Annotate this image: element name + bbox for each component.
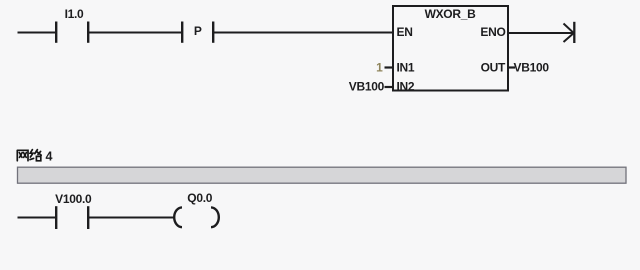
svg-text:VB100: VB100 bbox=[514, 61, 550, 75]
svg-text:1: 1 bbox=[376, 61, 383, 75]
svg-text:VB100: VB100 bbox=[349, 79, 385, 93]
svg-text:4: 4 bbox=[46, 150, 53, 164]
svg-text:ENO: ENO bbox=[480, 25, 505, 39]
svg-text:Q0.0: Q0.0 bbox=[187, 191, 212, 205]
svg-text:I1.0: I1.0 bbox=[65, 7, 84, 21]
svg-text:IN2: IN2 bbox=[397, 79, 415, 93]
svg-text:WXOR_B: WXOR_B bbox=[425, 7, 477, 21]
svg-text:EN: EN bbox=[397, 25, 413, 39]
svg-text:OUT: OUT bbox=[481, 61, 506, 75]
svg-text:P: P bbox=[194, 24, 202, 38]
svg-text:V100.0: V100.0 bbox=[55, 192, 92, 206]
svg-text:IN1: IN1 bbox=[397, 61, 415, 75]
